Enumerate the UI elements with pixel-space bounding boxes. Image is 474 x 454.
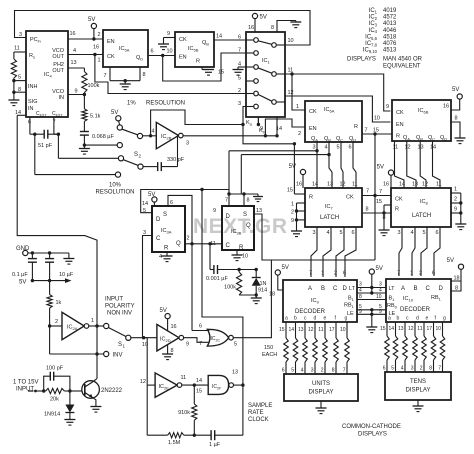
svg-text:POLARITY: POLARITY [105,304,135,310]
svg-text:4046: 4046 [383,28,397,34]
ground tens display [417,400,419,406]
capacitor 0.068uF [80,131,89,133]
svg-text:9: 9 [291,218,294,224]
svg-text:8: 8 [332,368,335,374]
wire PH2 OUT pin13 [68,67,84,69]
svg-text:DISPLAYS: DISPLAYS [347,57,376,63]
decoder link row LE [357,309,386,311]
svg-text:IC2: IC2 [369,15,378,21]
svg-text:A: A [308,286,312,292]
decoder link row LT [357,287,386,289]
wire IC3B pin8 stub [243,194,245,206]
capacitor 10uF [49,253,51,259]
svg-text:IC7: IC7 [325,204,334,210]
wire IC2D output to IC2C pin7 [184,338,209,343]
svg-text:2: 2 [291,210,294,216]
5V terminal IC9 pin18 [275,270,280,275]
wire IC6A QB output drop [329,142,332,188]
bus L2 from IC6A QA to IC3B pin7 [229,150,317,152]
svg-text:C: C [156,236,161,242]
IC U1 4019 selector box [246,32,285,117]
svg-text:5: 5 [291,368,294,374]
svg-text:1k: 1k [56,300,62,306]
svg-text:11: 11 [318,327,323,333]
op IC2D inverter [157,324,179,351]
svg-text:IC3: IC3 [369,21,378,27]
wire IC2A output to S1 noninv [89,325,104,327]
svg-text:d: d [416,316,419,322]
wire IC6A QC output drop [341,142,343,188]
resistor 1k pullup [49,281,51,295]
svg-text:5: 5 [336,145,339,151]
svg-text:16: 16 [248,25,254,31]
svg-text:R: R [354,124,358,130]
svg-text:15: 15 [380,326,386,332]
ground IC7 inputs [291,230,302,232]
svg-text:10: 10 [340,327,346,333]
svg-text:14: 14 [288,327,294,333]
svg-text:10 µF: 10 µF [59,272,74,278]
svg-text:8: 8 [429,366,432,372]
svg-text:D: D [439,286,444,292]
wire NAND output to sample clock node [234,384,243,386]
svg-text:16: 16 [383,182,389,188]
svg-text:IC3B: IC3B [231,229,242,235]
svg-text:10: 10 [435,326,441,332]
svg-text:9: 9 [260,126,263,132]
wire IC1 pin4 ground [238,66,246,68]
svg-text:B1: B1 [348,296,355,302]
svg-text:LT: LT [389,286,396,292]
svg-text:6: 6 [351,230,354,236]
node sample clock tap on D line [200,188,203,191]
svg-text:12: 12 [340,182,346,188]
svg-text:11: 11 [417,326,422,332]
svg-text:7: 7 [366,189,369,195]
svg-text:3: 3 [238,101,241,107]
svg-text:DISPLAYS: DISPLAYS [358,432,387,438]
svg-text:UNITS: UNITS [312,381,330,387]
svg-text:R: R [396,134,400,140]
wire S1 pole to IC2D input [131,337,157,339]
gate IC2F NAND [208,375,228,394]
switch S2 arm lower [123,160,138,166]
decoder link row RB [357,299,386,301]
svg-text:2: 2 [334,271,337,277]
node 100pF left [42,389,45,392]
svg-text:100 pF: 100 pF [46,366,64,372]
svg-text:g: g [443,316,446,322]
svg-text:2: 2 [98,32,101,38]
svg-text:2N2222: 2N2222 [101,388,123,394]
svg-text:5V: 5V [282,265,289,271]
ground one-shot [255,295,257,298]
svg-text:10: 10 [167,49,173,55]
wire 330pF riser to IC2B output [177,136,179,167]
svg-text:16: 16 [171,324,177,330]
svg-text:8: 8 [455,286,458,292]
svg-text:Ka: Ka [246,120,253,126]
wire Cext pin6 node to S2 bottom contact [34,134,36,174]
wire IC7 out3 to IC9 A [311,227,317,277]
svg-text:7: 7 [438,366,441,372]
svg-text:R: R [196,59,200,65]
IC U9 4513 decoder box [283,280,357,322]
svg-text:1.5M: 1.5M [168,440,181,446]
svg-text:B: B [321,286,325,292]
svg-text:EACH: EACH [262,352,277,358]
node latch clock [373,194,376,197]
svg-text:RESOLUTION: RESOLUTION [95,190,134,196]
svg-text:R: R [239,245,244,251]
node 100k tap [237,268,240,271]
gate IC2C NOR [207,329,228,346]
svg-text:13: 13 [232,370,238,376]
svg-text:4: 4 [324,145,327,151]
wire IC5B CK grounded [164,37,176,39]
svg-text:11: 11 [210,241,216,247]
svg-text:C: C [333,286,338,292]
svg-text:8: 8 [455,116,458,122]
IC U4 4046 PLL box [26,31,68,117]
svg-text:11: 11 [352,182,358,188]
wire IC6B QA drop [395,141,405,188]
wire IC7 pins 1 2 9 grounded [297,202,306,204]
svg-text:13: 13 [412,182,418,188]
wire SIG IN down left rail to transistor collector [17,114,26,116]
IC U5B 4518 counter box [175,32,214,67]
svg-text:2: 2 [419,271,422,277]
svg-text:5V: 5V [260,15,267,21]
svg-text:RB0: RB0 [387,303,398,309]
svg-text:LE: LE [347,311,354,317]
svg-text:1: 1 [321,271,324,277]
svg-text:CLOCK: CLOCK [248,417,269,423]
resistor 150 ohm tens segment 4 [414,322,416,336]
svg-text:2: 2 [420,366,423,372]
svg-text:5V: 5V [19,280,26,286]
wire IC5A pins 7 8 tied to ground [109,67,111,81]
svg-text:3: 3 [311,368,314,374]
wire IC7 out5 to IC9 C [336,227,344,277]
wire NOR pin6 input [192,330,209,332]
svg-text:6: 6 [282,368,285,374]
wire IC2B feedback loop [151,110,243,136]
resistor 150 ohm tens segment 5 [423,322,425,336]
svg-text:B1: B1 [389,296,396,302]
svg-text:QC: QC [428,135,435,141]
svg-text:11: 11 [181,375,187,381]
svg-text:51 pF: 51 pF [38,143,53,149]
svg-text:5V: 5V [88,17,95,23]
IC1 internal contacts left [254,38,259,43]
ground IC3A R pin4 [166,252,168,256]
svg-text:S: S [163,212,167,218]
node input polarity junctions [95,324,98,327]
wire IC1 pin12 over IC6A to IC6B EN pin10 [285,96,390,122]
5V terminal IC2D [165,314,170,319]
svg-text:10: 10 [288,38,294,44]
decoder link row B1 [357,292,386,294]
wire pin8 tap [12,91,15,94]
svg-text:4: 4 [401,366,404,372]
5V terminal IC1 [252,13,257,18]
wire IC7 IC8 pin8 row [362,212,391,214]
svg-text:18: 18 [269,292,275,298]
svg-text:C: C [426,286,431,292]
svg-text:IN: IN [59,95,65,101]
svg-text:S: S [118,342,122,348]
node S1 signal junctions [142,336,145,339]
svg-text:8: 8 [271,25,274,31]
node IC2A input [48,324,51,327]
IC U3B 4013 flip-flop box [222,206,254,250]
svg-text:12: 12 [308,327,314,333]
wire branch to IC6A CK pin1 [291,74,293,96]
wire IC6B QB drop [407,141,416,188]
wire IC1 pin14 stub to Kb [276,117,278,136]
wire IC3B Q pin13 to strobe line [254,214,375,260]
capacitor 1uF [210,430,212,440]
svg-text:DISPLAY: DISPLAY [406,388,431,394]
svg-text:IN: IN [28,106,34,112]
wire collector up to rail [93,379,98,382]
svg-text:QB: QB [202,40,209,46]
wire bottom rail [147,434,167,436]
bus L1 riser to IC7 R pin15 [293,142,296,145]
display UNITS box [284,374,358,401]
svg-text:5V: 5V [148,192,155,198]
svg-text:CK: CK [346,195,354,201]
svg-text:1: 1 [91,318,94,324]
resistor 150 ohm tens segment 2 [395,322,397,336]
5V terminal IC8 pin16 [388,170,393,175]
switch S2 throw contacts [137,133,142,138]
resistor 150 ohm tens segment 7 [442,322,444,336]
svg-text:GND: GND [16,246,30,252]
ground IC5B CK [158,43,169,45]
svg-text:6: 6 [383,366,386,372]
svg-text:6: 6 [199,324,202,330]
svg-text:2: 2 [298,131,301,137]
svg-text:11: 11 [436,182,442,188]
diode 1N914 one-shot [255,270,257,278]
svg-text:CK: CK [309,109,317,115]
ground pin8 row [379,229,390,231]
IC1 internal contacts right [272,43,277,48]
svg-text:5V: 5V [452,87,459,93]
svg-text:4518: 4518 [383,34,397,40]
wire IC2B output Kb line [183,135,277,137]
svg-text:IC8: IC8 [420,199,429,205]
capacitor 0.001uF one-shot [209,244,211,270]
wire IC3A C down to S1 pole [143,236,153,338]
svg-text:14: 14 [196,378,202,384]
svg-text:Q: Q [176,241,181,247]
svg-text:4: 4 [379,288,382,294]
resistor 150 ohm units segment 5 [324,322,326,338]
svg-text:1 TO 15V: 1 TO 15V [13,380,38,386]
svg-text:17: 17 [426,326,432,332]
svg-text:IC3A: IC3A [161,228,172,234]
svg-text:MAN 4540 OR: MAN 4540 OR [383,57,423,63]
ground input caps [68,253,70,259]
svg-text:g: g [345,316,348,322]
svg-text:10: 10 [374,116,380,122]
svg-text:910k: 910k [178,410,190,416]
switch S1 arm [108,328,126,337]
svg-text:4076: 4076 [383,41,397,47]
resistor 150 ohm units segment 4 [314,322,316,338]
svg-text:4: 4 [301,368,304,374]
svg-text:14: 14 [216,34,222,40]
svg-text:Q: Q [246,223,251,229]
wire to IC2E input [147,384,155,386]
svg-text:EQUIVALENT: EQUIVALENT [383,64,421,70]
svg-text:R: R [309,195,313,201]
svg-text:1: 1 [98,58,101,64]
wire IC5A QD to IC5B EN [148,55,175,57]
svg-text:0.068 µF: 0.068 µF [92,134,114,140]
svg-text:15: 15 [218,70,224,76]
svg-text:IC2A: IC2A [67,325,78,331]
svg-text:4: 4 [326,230,329,236]
wire IC6A R pin7 to IC6B R pin15 [362,133,392,135]
svg-text:5: 5 [238,76,241,82]
svg-text:S: S [243,212,247,218]
wire IC3A S loop to Q bar [168,195,192,330]
svg-text:13: 13 [256,208,262,214]
svg-text:16: 16 [296,182,302,188]
svg-text:7: 7 [343,368,346,374]
resistor 150 ohm units segment 6 [335,322,337,338]
resistor Rs [14,51,26,53]
resistor 150 ohm tens segment 1 [386,322,388,336]
wire IC8 pins 1 2 9 grounded [451,192,461,194]
ground IC1 pin4 [233,69,244,71]
wire IC1 pin12 to IC6A CK [285,96,305,110]
svg-text:12: 12 [288,90,294,96]
svg-text:7: 7 [238,48,241,54]
svg-text:D: D [156,217,161,223]
wire IC6B QC drop [420,141,426,188]
svg-text:16: 16 [93,45,99,51]
node IC2F output [241,383,244,386]
svg-text:QB: QB [416,135,423,141]
svg-text:4: 4 [159,254,162,260]
svg-text:SIG: SIG [28,99,37,105]
wire 20k to base [70,390,82,392]
svg-text:3: 3 [186,141,189,147]
svg-text:150: 150 [264,345,273,351]
svg-text:QA: QA [403,135,410,141]
terminal GND input [23,250,28,255]
IC1 right pin stubs [277,44,285,46]
wire 5V rail with arrow [32,280,68,282]
svg-text:LT: LT [349,286,356,292]
wire 1k node to IC2A input [50,325,62,327]
svg-text:SAMPLE: SAMPLE [248,403,272,409]
svg-text:IC10: IC10 [403,296,414,302]
wire IC3B pin7 stub [228,194,230,206]
svg-text:LATCH: LATCH [320,215,339,221]
ground IC6B pin8 [455,137,466,139]
resistor 150 ohm tens segment 3 [404,322,406,336]
svg-text:B: B [414,286,418,292]
wire PCin feedback to top rail and IC1 pin10 [15,11,311,46]
svg-text:IC6B: IC6B [418,108,429,114]
svg-text:10: 10 [242,254,248,260]
svg-text:12: 12 [140,379,146,385]
svg-text:5: 5 [339,230,342,236]
svg-text:15: 15 [196,389,202,395]
svg-text:12: 12 [408,326,414,332]
svg-text:16: 16 [443,104,449,110]
wire IC6B QD drop [433,141,441,188]
svg-text:4: 4 [410,230,413,236]
resistor 1.5M [168,433,184,438]
svg-text:11: 11 [393,145,399,151]
svg-text:6: 6 [238,35,241,41]
wire INV line [50,353,104,355]
svg-text:EN: EN [396,122,404,128]
wire IC1 pin8 to ground [277,21,296,33]
wire IC8 out5 to IC10 C [421,227,427,276]
wire IC8 out4 to IC10 B [412,227,415,276]
svg-text:NON INV: NON INV [107,311,132,317]
5V terminal IC10 pin18 [458,264,463,269]
svg-text:10: 10 [142,342,148,348]
svg-text:2: 2 [187,236,190,242]
resistor 150 ohm units segment 7 [346,322,348,338]
resistor 100k one-shot [238,270,240,273]
svg-text:0.1 µF: 0.1 µF [12,272,28,278]
IC U6B 4518 counter box [392,100,451,141]
svg-text:16: 16 [70,31,76,37]
svg-text:5V: 5V [376,266,383,272]
svg-text:CK: CK [396,110,404,116]
ground IC5A [124,79,127,82]
svg-text:5: 5 [234,342,237,348]
wire VCO IN pin9 tap [83,93,86,96]
svg-text:15: 15 [376,199,382,205]
terminal input [28,390,34,392]
wire sample clock riser from IC2F output to D line [202,190,243,436]
svg-text:QD: QD [440,135,447,141]
svg-text:EN: EN [309,126,317,132]
svg-text:IC5B: IC5B [188,46,199,52]
wire R bus down through latch clock to strobe [374,134,376,260]
svg-text:CK: CK [179,37,187,43]
wire feedback riser to IC1 pin3 [241,123,244,126]
svg-text:DISPLAY: DISPLAY [309,390,334,396]
svg-text:1N914: 1N914 [44,412,60,418]
svg-text:RATE: RATE [248,410,264,416]
svg-text:D: D [343,286,348,292]
wire IC6B pin8 ground [451,122,460,138]
svg-text:7: 7 [365,128,368,134]
svg-text:a: a [388,316,391,322]
svg-text:7: 7 [397,271,400,277]
svg-text:6: 6 [432,271,435,277]
resistor 100k loop filter [82,72,87,93]
wire IC8 out6 to IC10 D [434,227,440,276]
svg-text:15: 15 [373,128,379,134]
node Kb [264,134,267,137]
svg-text:9: 9 [379,309,382,315]
wire IC7 out6 to IC9 D [345,227,356,277]
capacitor 0.1uF [31,253,33,259]
